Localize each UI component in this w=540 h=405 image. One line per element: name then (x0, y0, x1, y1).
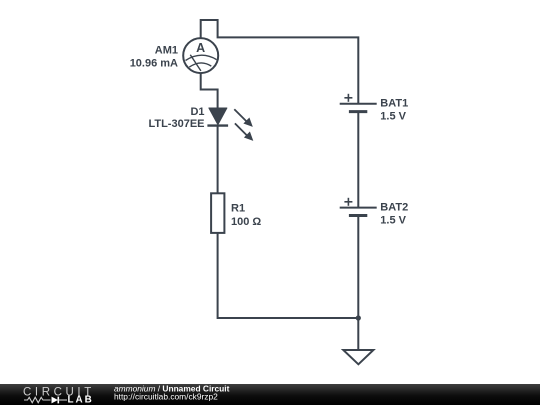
battery BAT1 (340, 94, 377, 112)
CircuitLab logo: CIRCUIT wordmark (23, 386, 95, 398)
label D1 part LTL-307EE (148, 118, 204, 130)
svg-text:1.5 V: 1.5 V (380, 215, 406, 227)
ammeter AM1 (183, 38, 218, 73)
svg-text:10.96 mA: 10.96 mA (130, 58, 178, 70)
ground (343, 350, 373, 364)
wire junction to ground (357, 318, 359, 350)
svg-text:LTL-307EE: LTL-307EE (148, 118, 204, 130)
svg-text:BAT1: BAT1 (380, 98, 408, 110)
svg-text:A: A (196, 41, 205, 55)
wire D1 to R1 (217, 126, 219, 194)
label BAT1 name (380, 98, 408, 110)
svg-text:http://circuitlab.com/ck9rzp2: http://circuitlab.com/ck9rzp2 (114, 391, 218, 401)
svg-text:LAB: LAB (68, 395, 94, 405)
wire BAT1 to BAT2 (357, 112, 359, 208)
label R1 name (231, 203, 245, 215)
label BAT2 value 1.5 V (380, 215, 406, 227)
label BAT1 value 1.5 V (380, 111, 406, 123)
junction node (356, 315, 361, 320)
CircuitLab logo: resistor zigzag and diode glyph (24, 397, 67, 404)
label AM1 value 10.96 mA (130, 58, 178, 70)
svg-text:100 Ω: 100 Ω (231, 216, 261, 228)
battery BAT2 (340, 198, 377, 216)
wire AM1 bottom to D1 (201, 73, 218, 109)
CircuitLab logo: LAB wordmark (68, 395, 94, 405)
label D1 name (190, 106, 204, 118)
wire: top jog from AM1 top to BAT1 column (201, 20, 359, 104)
label BAT2 name (380, 202, 408, 214)
footer url line (114, 391, 218, 401)
label AM1 name (155, 45, 178, 57)
svg-text:1.5 V: 1.5 V (380, 111, 406, 123)
resistor R1 (211, 193, 224, 233)
label R1 value 100 Ω (231, 216, 261, 228)
svg-text:R1: R1 (231, 203, 245, 215)
wire R1 bottom to junction node (218, 233, 359, 318)
LED D1 (207, 108, 253, 141)
svg-text:BAT2: BAT2 (380, 202, 408, 214)
wire BAT2 to junction node (357, 216, 359, 318)
svg-text:AM1: AM1 (155, 45, 178, 57)
footer bar (0, 384, 540, 405)
footer title line: ammonium / Unnamed Circuit (114, 383, 230, 393)
svg-text:D1: D1 (190, 106, 204, 118)
